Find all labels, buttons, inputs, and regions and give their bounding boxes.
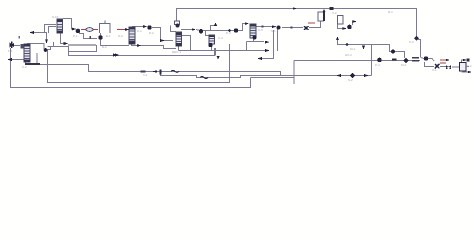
wire P1 zigzag [79, 34, 97, 39]
dark bar x68 y45 [68, 44, 96, 46]
svg-text:P-4: P-4 [375, 63, 380, 67]
wire b1 bottom [11, 48, 251, 88]
pump on jog [391, 50, 395, 54]
wire y30 line pumps [196, 24, 246, 31]
dash above y61 [392, 59, 397, 61]
pump P4 [147, 25, 151, 29]
vessel V5 flash [460, 63, 467, 72]
wire colC top loop [27, 44, 44, 50]
stack pre colC [21, 44, 25, 49]
wire col1 feed2 [49, 27, 57, 34]
svg-text:C-1: C-1 [137, 29, 142, 33]
svg-text:C-2: C-2 [22, 65, 27, 69]
diamond x416 [414, 36, 419, 41]
wire vertical x371 [371, 45, 373, 76]
wire colE overhead [256, 26, 276, 28]
wire y44 to y61 branch [372, 45, 405, 59]
wire col1 overhead [63, 19, 76, 30]
wire colA bottoms arrow [132, 44, 177, 49]
wire top recycle y8 [177, 9, 417, 37]
vessel V4a [318, 12, 324, 21]
valve X1 [304, 26, 309, 30]
wire colA overhead to P4 [133, 26, 146, 29]
junction dot x229 [228, 29, 231, 32]
hx ellipse [86, 28, 93, 32]
svg-text:X-1: X-1 [432, 68, 437, 72]
svg-text:V-2: V-2 [332, 11, 337, 15]
wire P6 out stub [353, 22, 356, 26]
wire x294 below [293, 78, 295, 85]
arrow y75 right [364, 74, 369, 77]
tick y26 colE [262, 25, 264, 27]
valve y55 arrow [113, 53, 119, 57]
vessel V2 cup [100, 21, 111, 34]
arrow P6 stub [353, 20, 357, 23]
arrow y58 left [257, 57, 262, 60]
svg-text:S-1: S-1 [271, 29, 276, 33]
wire y61 down leg x294 [251, 61, 295, 78]
wire stub vent arrow [211, 26, 215, 31]
svg-text:C-4: C-4 [218, 36, 223, 40]
column colA [129, 27, 135, 44]
svg-text:REC-1: REC-1 [172, 50, 181, 54]
wire colE bottoms arrow [254, 39, 265, 42]
svg-text:P-2: P-2 [149, 31, 154, 35]
wire vertical x37 [36, 53, 38, 64]
arrow into colA [125, 28, 129, 31]
tick y27 [291, 26, 293, 28]
svg-text:V-3: V-3 [409, 40, 414, 44]
pump dot condenser [44, 48, 48, 52]
wire col1 feed1 [45, 25, 57, 34]
wire dark bar right drop [69, 45, 97, 52]
tick at 19,37 [19, 36, 21, 39]
wire up-arrow vertical x337 [338, 39, 372, 45]
wire P4 out [152, 28, 173, 41]
column colC [24, 44, 30, 62]
pump on y30 [199, 29, 203, 33]
arrow y29 col1 ovhd [72, 28, 76, 31]
squiggle y77 [200, 77, 208, 79]
wire right vertical jog [418, 40, 421, 58]
wire y61 long [294, 60, 420, 62]
arrow vent up [214, 22, 217, 25]
blob on y8 line [330, 7, 334, 10]
arrow after red r4 [446, 59, 450, 62]
arrow V5 top right [463, 59, 467, 62]
wire colD bottoms [211, 47, 213, 51]
arrow down at218 [217, 56, 220, 60]
svg-text:M-1: M-1 [350, 47, 355, 51]
wire vertical x246 [246, 42, 248, 51]
stream red r1 [81, 29, 98, 31]
dark bar colC bottoms [25, 63, 40, 65]
arrow at 163,40 [160, 39, 165, 42]
wire colC bottoms y64 [26, 62, 281, 76]
arrow y75 left [336, 74, 341, 77]
wire V5 bottom out [462, 71, 468, 72]
wire twin vertical a [277, 29, 279, 51]
pump P1 [76, 29, 81, 34]
vessel V4b [338, 16, 344, 25]
arrow y71 left at153 [152, 70, 157, 73]
squiggle y71 at174 [171, 70, 179, 72]
dot y44 [346, 43, 349, 46]
arrow colA bottoms [137, 44, 141, 47]
junction blob x278 [276, 25, 280, 29]
arrow y50 right [265, 49, 270, 52]
valve tick x160 [159, 70, 161, 75]
wire colB right to y50 [181, 36, 191, 51]
wire V2 bottom down [101, 33, 130, 46]
arrow colE top feed [245, 22, 249, 25]
wire colC left product [9, 59, 24, 61]
column colD [208, 35, 214, 47]
diamond y75 [350, 73, 355, 78]
arrow V5 bottom right [468, 71, 472, 74]
wire V4b bottoms pump [338, 24, 345, 29]
valve before V5 [446, 65, 451, 69]
wire X2 cluster [425, 62, 435, 67]
svg-text:HX-2: HX-2 [345, 53, 352, 57]
column colB [176, 32, 182, 46]
arrow colE bottoms [265, 41, 270, 44]
arrow down x46 [45, 40, 48, 44]
wire twin vertical b [260, 30, 274, 59]
wire colE bottoms branch [247, 41, 254, 43]
wire P7 line [421, 58, 435, 62]
svg-text:M-2: M-2 [401, 63, 406, 67]
svg-text:S-3: S-3 [118, 34, 123, 38]
wire y50 line [179, 50, 269, 52]
arrow into P6 [343, 27, 347, 30]
arrow colC product left [7, 58, 12, 61]
column colE [250, 24, 257, 40]
svg-text:V-1: V-1 [143, 73, 148, 77]
svg-text:F-1: F-1 [8, 49, 13, 53]
arrow col1 bottoms [64, 42, 69, 45]
pump P5 [234, 28, 238, 32]
wire feed to colC [14, 45, 20, 47]
wire reboiler return colD [215, 48, 217, 56]
stream red r4 [440, 59, 447, 61]
arrow before P4 [143, 25, 147, 28]
wire zigzag condenser [47, 47, 215, 56]
svg-text:S-2: S-2 [348, 78, 353, 82]
pump X2 [435, 64, 440, 69]
column col1 [57, 19, 63, 33]
svg-text:R-1: R-1 [388, 10, 393, 14]
pump P8 on y61 [377, 58, 382, 63]
wire col1 bottoms [61, 33, 66, 44]
wire colB top feed [171, 26, 177, 32]
wire colB out arrow [181, 29, 193, 31]
wire colD feed [206, 31, 210, 36]
arrow up x337 [336, 37, 339, 41]
blob after V5 top [466, 59, 469, 62]
feed icon F1 [10, 42, 15, 49]
wire b2 bottom [48, 44, 230, 83]
wire y77 jog left [48, 42, 54, 47]
mark on y71 at143 [141, 70, 146, 72]
svg-text:P-3: P-3 [226, 31, 231, 35]
wire product arrow left y32 [31, 33, 47, 41]
valve tick zigzag [89, 36, 91, 39]
arrow left y32 [29, 31, 34, 34]
stream red r2 [117, 29, 125, 31]
pump P2 vessel [175, 21, 180, 28]
stream red r3 [308, 22, 315, 24]
arrow on y8 line at 295 [293, 7, 297, 10]
arrow down x363 [362, 46, 365, 50]
pump V2 bottom [98, 35, 102, 39]
arrow before blob [272, 25, 276, 28]
arrow V4a vapor [323, 9, 326, 12]
V4a dark wall [323, 12, 325, 22]
svg-text:E-2: E-2 [102, 45, 107, 49]
arrow before it [192, 28, 196, 31]
svg-text:S-10: S-10 [52, 15, 59, 19]
svg-text:P-1: P-1 [73, 34, 78, 38]
wire colB bottoms [178, 46, 180, 51]
svg-text:E-1: E-1 [106, 34, 111, 38]
pump P7 [424, 56, 428, 60]
furnace dashes [412, 57, 419, 59]
svg-text:F-2: F-2 [467, 64, 472, 68]
red above X2 [440, 62, 446, 64]
wire Lmid y75 [161, 72, 372, 78]
wire V5 top [462, 60, 465, 62]
pump P6 [347, 25, 352, 30]
diamond x406 [403, 58, 408, 63]
svg-text:C-5: C-5 [258, 28, 263, 32]
